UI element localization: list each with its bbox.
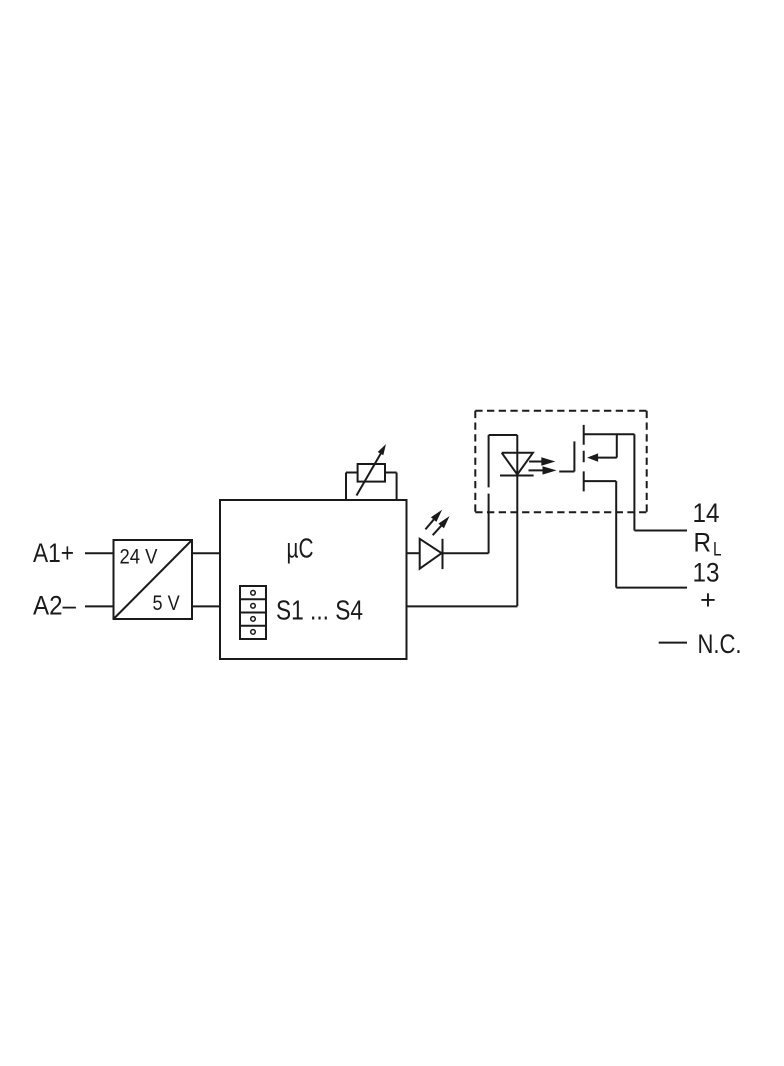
- svg-text:+: +: [700, 585, 716, 615]
- svg-text:S1 ... S4: S1 ... S4: [276, 595, 363, 626]
- svg-text:A1+: A1+: [33, 538, 74, 568]
- svg-text:5 V: 5 V: [153, 592, 180, 615]
- svg-text:R: R: [694, 528, 712, 558]
- svg-text:14: 14: [693, 498, 720, 528]
- svg-text:N.C.: N.C.: [698, 629, 742, 659]
- svg-text:A2–: A2–: [33, 591, 76, 621]
- svg-text:µC: µC: [287, 533, 314, 564]
- svg-text:13: 13: [693, 558, 720, 588]
- svg-text:24 V: 24 V: [120, 546, 158, 569]
